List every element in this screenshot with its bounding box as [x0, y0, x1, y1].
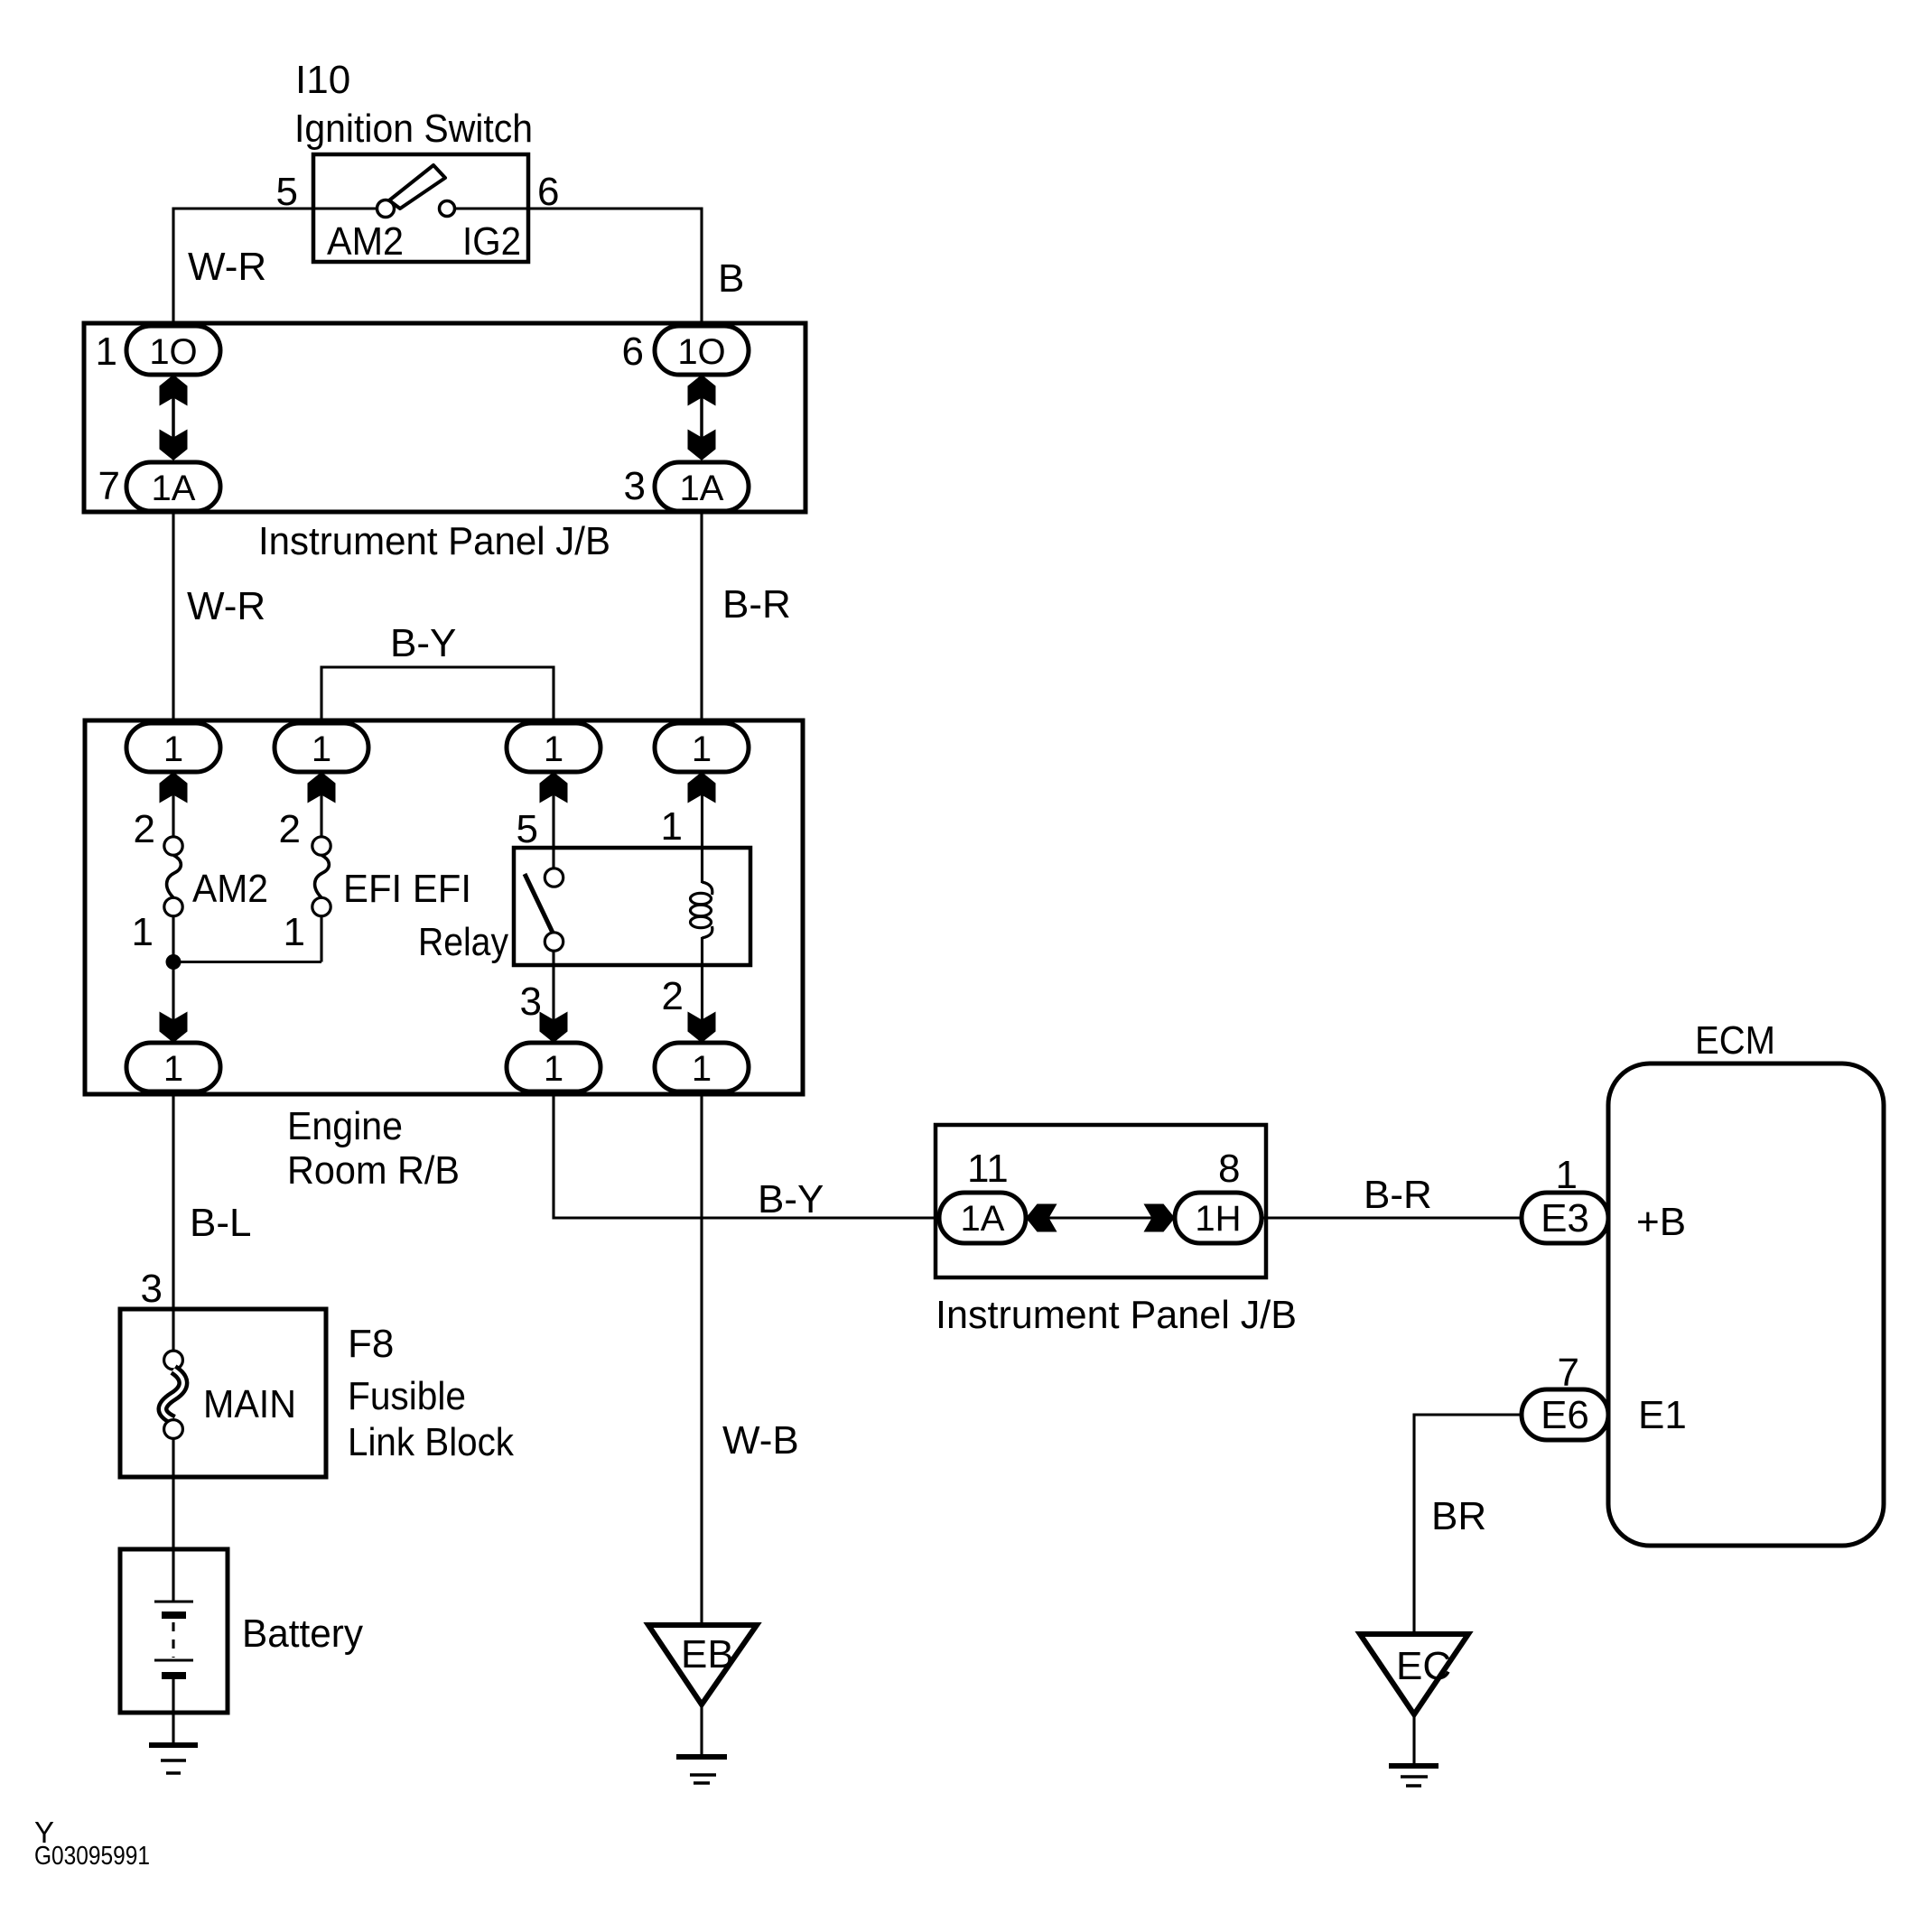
svg-text:1A: 1A — [961, 1199, 1005, 1239]
svg-text:B-L: B-L — [190, 1201, 251, 1245]
wire: junction horizontal — [173, 961, 321, 963]
up arrow col A — [160, 772, 188, 803]
battery plates — [154, 1602, 193, 1676]
wire: B-R riser J/B to engine room — [700, 509, 703, 724]
Engine Room R/B box — [85, 720, 803, 1094]
svg-text:1: 1 — [544, 1049, 563, 1089]
svg-text:W-B: W-B — [722, 1418, 799, 1463]
svg-text:3: 3 — [624, 464, 646, 508]
svg-text:1: 1 — [163, 729, 183, 769]
ground triangle EB — [648, 1625, 757, 1704]
svg-text:Relay: Relay — [418, 920, 508, 964]
svg-text:1O: 1O — [677, 332, 725, 372]
wire: EB to ground — [700, 1704, 703, 1757]
svg-text:BR: BR — [1431, 1494, 1486, 1538]
ECM box — [1608, 1064, 1884, 1546]
svg-text:Engine: Engine — [287, 1104, 403, 1148]
wire into fusible link — [172, 1309, 174, 1351]
svg-text:EB: EB — [681, 1632, 734, 1677]
svg-text:EFI EFI: EFI EFI — [343, 867, 471, 911]
svg-text:1O: 1O — [149, 332, 197, 372]
svg-text:B-Y: B-Y — [390, 621, 456, 665]
wire: stub inside switch to AM2 contact — [313, 207, 377, 209]
svg-text:1A: 1A — [680, 469, 724, 508]
svg-text:2: 2 — [279, 807, 301, 851]
svg-text:W-R: W-R — [187, 584, 265, 628]
wire: W-R from left riser to ignition switch — [173, 209, 313, 330]
svg-text:3: 3 — [141, 1267, 163, 1311]
relay switch contact top — [545, 868, 563, 887]
svg-text:1: 1 — [692, 729, 712, 769]
svg-text:Instrument Panel J/B: Instrument Panel J/B — [258, 519, 610, 563]
wire: B-Y jumper loop — [321, 667, 554, 724]
svg-text:MAIN: MAIN — [203, 1382, 296, 1426]
svg-text:1: 1 — [312, 729, 331, 769]
svg-text:5: 5 — [517, 807, 538, 851]
svg-text:EC: EC — [1396, 1644, 1451, 1688]
ignition switch I10 labels — [294, 58, 533, 151]
wire: W-R riser J/B to engine room — [172, 509, 174, 724]
svg-text:2: 2 — [662, 974, 684, 1018]
svg-text:1H: 1H — [1195, 1199, 1241, 1239]
down arrow col D — [688, 1012, 716, 1044]
down arrow col C — [540, 1012, 568, 1044]
svg-text:Instrument Panel J/B: Instrument Panel J/B — [936, 1293, 1297, 1337]
ignition switch I10 box — [313, 154, 528, 262]
svg-text:1: 1 — [661, 804, 683, 849]
svg-text:IG2: IG2 — [462, 219, 521, 264]
wire: EFI fuse down to junction — [320, 916, 322, 962]
connector E3 — [1522, 1193, 1608, 1243]
svg-text:W-R: W-R — [188, 245, 266, 289]
Instrument Panel J/B box (lower) — [936, 1125, 1266, 1277]
svg-text:1A: 1A — [152, 469, 196, 508]
F8 fusible link block box — [120, 1309, 326, 1477]
svg-text:E1: E1 — [1638, 1393, 1687, 1437]
connector 1O (left) — [126, 326, 220, 375]
svg-text:Link Block: Link Block — [348, 1420, 515, 1464]
svg-text:1: 1 — [163, 1049, 183, 1089]
svg-text:ECM: ECM — [1695, 1018, 1775, 1063]
pass-through arrow right — [688, 375, 716, 460]
wire: fusible link to battery — [172, 1438, 174, 1602]
svg-text:Fusible: Fusible — [348, 1374, 466, 1418]
wire: B-R from 1H to ECM E3 — [1261, 1216, 1522, 1219]
svg-text:1: 1 — [96, 330, 117, 374]
svg-text:3: 3 — [520, 980, 542, 1024]
svg-text:B-Y: B-Y — [758, 1177, 824, 1221]
bottom connector 1 (col D) — [655, 1043, 749, 1091]
ground triangle EC — [1360, 1634, 1468, 1714]
svg-text:AM2: AM2 — [327, 219, 404, 264]
top connector 1 (col A) — [126, 723, 220, 772]
fuse AM2 — [164, 837, 182, 916]
wire: stub inside switch from IG2 contact — [455, 207, 528, 209]
fusible link MAIN — [163, 1351, 183, 1438]
svg-text:AM2: AM2 — [192, 867, 268, 911]
EFI relay box — [514, 848, 750, 965]
relay switch blade — [525, 874, 553, 933]
svg-text:1: 1 — [284, 910, 305, 954]
up arrow col C — [540, 772, 568, 803]
wire: BR from E6 to EC — [1414, 1415, 1522, 1634]
ground (EC) — [1389, 1766, 1438, 1786]
svg-text:1: 1 — [692, 1049, 712, 1089]
wire: B-Y from engine room to J/B 2 — [554, 1090, 941, 1218]
svg-text:B-R: B-R — [1364, 1173, 1432, 1217]
battery box — [120, 1549, 228, 1713]
svg-text:1: 1 — [544, 729, 563, 769]
svg-text:7: 7 — [98, 464, 120, 508]
top connector 1 (col D) — [655, 723, 749, 772]
down arrow col A — [160, 1012, 188, 1044]
svg-text:+B: +B — [1636, 1200, 1686, 1244]
svg-text:11: 11 — [967, 1147, 1009, 1191]
wire: col A oval to fuse AM2 — [172, 772, 174, 837]
svg-text:8: 8 — [1218, 1147, 1240, 1191]
pass-through arrow left — [160, 375, 188, 460]
ground (EB) — [676, 1757, 727, 1783]
svg-text:E3: E3 — [1541, 1196, 1589, 1240]
svg-text:Ignition Switch: Ignition Switch — [294, 107, 533, 151]
connector 1A (right) — [655, 462, 749, 511]
svg-text:F8: F8 — [348, 1322, 394, 1366]
connector 1O (right) — [655, 326, 749, 375]
svg-text:B-R: B-R — [722, 582, 791, 627]
svg-text:6: 6 — [622, 330, 644, 374]
wire: relay coil to pin 2 — [701, 937, 703, 1043]
ignition switch lever — [389, 165, 445, 209]
wire: W-B riser to EB — [700, 1090, 703, 1625]
ignition switch IG2 contact — [440, 201, 455, 217]
svg-text:E6: E6 — [1541, 1393, 1589, 1437]
connector 1A (left) — [126, 462, 220, 511]
wire between arrows — [1046, 1216, 1156, 1219]
bottom connector 1 (col A) — [126, 1043, 220, 1091]
svg-text:B: B — [718, 256, 744, 301]
ignition switch AM2 contact — [377, 200, 395, 218]
connector E6 — [1522, 1389, 1608, 1440]
up arrow col D — [688, 772, 716, 803]
arrow left — [1026, 1204, 1057, 1232]
fuse EFI — [312, 837, 331, 916]
top connector 1 (col B) — [275, 723, 368, 772]
wire: col D into relay coil — [701, 772, 703, 883]
junction dot — [166, 954, 182, 970]
svg-text:1: 1 — [132, 910, 154, 954]
svg-text:Room R/B: Room R/B — [287, 1148, 460, 1193]
wire: EC to ground — [1412, 1714, 1415, 1766]
connector 1H — [1175, 1193, 1262, 1243]
svg-text:Battery: Battery — [242, 1612, 363, 1656]
relay coil — [691, 882, 712, 938]
connector 1A — [939, 1193, 1026, 1243]
ground (battery) — [149, 1745, 198, 1773]
wire: B-L riser — [172, 1090, 174, 1309]
wire: col C into relay — [552, 772, 554, 868]
wire: fuse AM2 to junction to bottom oval — [172, 916, 174, 1044]
top connector 1 (col C) — [507, 723, 601, 772]
relay switch contact bottom — [545, 933, 563, 951]
Instrument Panel J/B box (upper) — [84, 323, 805, 512]
wire: relay switch to pin 3 — [552, 952, 554, 1044]
arrow right — [1144, 1204, 1176, 1232]
wire: battery to ground — [172, 1679, 174, 1745]
up arrow col B — [308, 772, 336, 803]
svg-text:G03095991: G03095991 — [34, 1842, 150, 1871]
bottom connector 1 (col C) — [507, 1043, 601, 1091]
wire: B from ignition switch to right riser — [528, 209, 702, 330]
svg-text:I10: I10 — [295, 58, 350, 102]
svg-text:2: 2 — [134, 807, 155, 851]
wire: col B oval to fuse EFI — [320, 772, 322, 837]
